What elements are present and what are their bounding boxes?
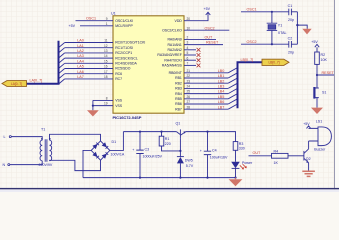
svg-text:+5V: +5V: [69, 24, 76, 28]
bus LA vertical: [27, 41, 59, 84]
U1 right pin name labels: [157, 19, 182, 112]
svg-text:RB1: RB1: [175, 76, 182, 80]
svg-text:Power: Power: [242, 161, 253, 165]
svg-text:XTAL: XTAL: [278, 31, 287, 35]
svg-text:RB0/INT: RB0/INT: [169, 71, 183, 75]
svg-text:LA[0..7]: LA[0..7]: [11, 82, 22, 86]
raw DC rail wire: [123, 130, 176, 134]
svg-text:LB0: LB0: [218, 69, 225, 73]
svg-text:C2: C2: [288, 36, 293, 40]
wire pin9 OSC1: [76, 19, 114, 23]
svg-text:OUT: OUT: [205, 36, 214, 40]
port LA[0..7]: [2, 81, 27, 87]
svg-text:OSC1/CLKI: OSC1/CLKI: [115, 19, 133, 23]
svg-text:R1: R1: [165, 137, 170, 141]
wire RA1 RESET: [184, 43, 223, 47]
svg-text:LB2: LB2: [218, 79, 225, 83]
zener diode D2: [177, 150, 194, 179]
ground at Q2 emitter: [302, 171, 315, 176]
capacitor C1: [288, 4, 298, 22]
svg-text:7: 7: [187, 62, 189, 66]
transistor Q1 (series pass): [176, 122, 186, 151]
svg-text:LB1: LB1: [218, 74, 225, 78]
svg-text:LB3: LB3: [218, 85, 225, 89]
capacitor C4: [200, 131, 228, 179]
buzzer LS1: [309, 120, 332, 152]
switch S1: [313, 87, 326, 99]
svg-text:VDD: VDD: [175, 19, 183, 23]
svg-text:23: 23: [187, 79, 191, 83]
power ground (supply output): [229, 178, 243, 187]
svg-text:R2: R2: [321, 53, 326, 57]
wire RA0 OUT: [184, 38, 216, 42]
svg-text:S1: S1: [322, 90, 326, 94]
svg-text:OSC2: OSC2: [205, 26, 215, 30]
node LB0-LB7 net labels: [218, 69, 225, 109]
svg-text:OSC2/CLKO: OSC2/CLKO: [162, 28, 182, 32]
svg-text:LB[0..7]: LB[0..7]: [241, 58, 254, 62]
svg-text:LB[0..7]: LB[0..7]: [269, 61, 280, 65]
svg-text:24: 24: [187, 85, 191, 89]
wire pin10 OSC2: [184, 28, 229, 32]
svg-text:20: 20: [187, 17, 191, 21]
svg-text:RC1/T1OSI: RC1/T1OSI: [115, 46, 133, 50]
ground at crystal caps: [302, 29, 311, 35]
svg-text:6: 6: [187, 56, 189, 60]
resistor R3: [233, 142, 245, 162]
wire L to transformer primary top: [9, 136, 11, 138]
svg-text:25: 25: [187, 90, 191, 94]
svg-text:26: 26: [187, 95, 191, 99]
wire VSS pins to ground: [93, 100, 113, 110]
wire buzzer to Q2 collector: [307, 141, 311, 149]
svg-text:LA4: LA4: [77, 59, 84, 63]
svg-text:RC0/T1OSO/T1CKI: RC0/T1OSO/T1CKI: [115, 41, 145, 45]
svg-text:R4: R4: [274, 149, 279, 153]
svg-text:RA3/AN3/VREF: RA3/AN3/VREF: [157, 53, 181, 57]
svg-text:LA[0..7]: LA[0..7]: [30, 78, 43, 82]
svg-text:RB7: RB7: [175, 107, 182, 111]
svg-text:+5V: +5V: [303, 122, 310, 126]
wire R4 to Q2 base: [288, 154, 304, 158]
svg-text:RB2: RB2: [175, 81, 182, 85]
svg-text:RB5: RB5: [175, 97, 182, 101]
svg-text:8: 8: [106, 97, 108, 101]
microcontroller U1 PIC16C72: [111, 12, 184, 121]
svg-text:T1: T1: [41, 128, 45, 132]
crystal Y1: [267, 11, 287, 46]
svg-text:VSS: VSS: [115, 104, 123, 108]
svg-text:Q2: Q2: [306, 157, 311, 161]
no-connect X marks RA2-RA5: [184, 48, 200, 67]
LED power indicator: [231, 161, 253, 179]
svg-text:5: 5: [187, 51, 189, 55]
svg-text:RESET: RESET: [206, 41, 219, 45]
svg-text:LA2: LA2: [77, 49, 84, 53]
svg-text:100V/1A: 100V/1A: [111, 152, 125, 156]
svg-text:14: 14: [104, 54, 108, 58]
bus LB vertical: [238, 62, 263, 108]
svg-text:RB6: RB6: [175, 102, 182, 106]
svg-text:20p: 20p: [288, 51, 294, 55]
bridge rectifier D1: [91, 140, 125, 160]
svg-text:RC3/SCK/SCL: RC3/SCK/SCL: [115, 56, 138, 60]
wire transformer secondary bottom to bridge AC2: [50, 160, 101, 170]
resistor R4: [272, 149, 289, 164]
svg-text:16: 16: [104, 65, 108, 69]
svg-text:RC2/CCP1: RC2/CCP1: [115, 51, 132, 55]
svg-text:100uF/16V: 100uF/16V: [210, 155, 228, 159]
regulated +5V rail wire: [186, 132, 236, 142]
svg-text:3: 3: [187, 41, 189, 45]
svg-text:22: 22: [187, 74, 191, 78]
svg-text:LA7: LA7: [77, 75, 84, 79]
svg-text:LA5: LA5: [77, 65, 84, 69]
svg-text:27: 27: [187, 100, 191, 104]
svg-text:N: N: [3, 163, 6, 167]
svg-text:L: L: [4, 135, 6, 139]
ground at switch: [311, 108, 323, 114]
svg-text:LB4: LB4: [218, 90, 225, 94]
power +5V at VDD: [206, 12, 211, 15]
svg-text:RA4/T0CKI: RA4/T0CKI: [164, 58, 181, 62]
wire caps common to ground: [297, 12, 307, 44]
svg-text:C3: C3: [145, 148, 150, 152]
wire transformer secondary top to bridge AC1: [50, 134, 101, 141]
svg-text:+: +: [200, 149, 202, 153]
wire OSC2 to crystal: [241, 42, 289, 46]
wire RB0-RB7 port B bus entries: [184, 68, 238, 110]
svg-text:RESET: RESET: [322, 71, 335, 75]
svg-text:RC5/SDO: RC5/SDO: [115, 67, 131, 71]
svg-text:20p: 20p: [288, 18, 294, 22]
svg-text:11: 11: [104, 39, 108, 43]
svg-text:LB5: LB5: [218, 95, 225, 99]
svg-text:330: 330: [239, 147, 245, 151]
ground at VSS: [87, 110, 99, 116]
svg-text:9: 9: [106, 17, 108, 21]
svg-text:OUT: OUT: [253, 151, 262, 155]
wire pin1 MCLR to +5V: [80, 24, 113, 28]
svg-text:RA2/AN2: RA2/AN2: [167, 48, 181, 52]
svg-text:R3: R3: [239, 142, 244, 146]
wire bridge plus to filter rail: [110, 132, 124, 151]
wire N to transformer primary bottom: [8, 164, 10, 166]
svg-text:RA0/AN0: RA0/AN0: [167, 38, 181, 42]
svg-text:C4: C4: [212, 149, 217, 153]
transformer T1: [39, 128, 53, 167]
svg-text:1: 1: [106, 22, 108, 26]
svg-text:5.7V: 5.7V: [186, 164, 194, 168]
svg-text:LB6: LB6: [218, 100, 225, 104]
wire bridge minus to ground rail: [83, 150, 91, 177]
svg-text:12: 12: [104, 44, 108, 48]
svg-text:17: 17: [104, 70, 108, 74]
ground rail wire: [83, 176, 236, 180]
node LA0-LA7 net labels: [77, 39, 84, 79]
svg-text:PIC16C72-04SP: PIC16C72-04SP: [113, 115, 142, 120]
wire RC0-RC7 port A bus entries: [59, 43, 114, 85]
wire OSC1 to crystal: [241, 10, 289, 14]
svg-text:15: 15: [104, 59, 108, 63]
svg-text:DW5: DW5: [185, 158, 193, 162]
svg-text:1000uF/25V: 1000uF/25V: [143, 154, 163, 158]
svg-text:VSS: VSS: [115, 99, 123, 103]
svg-text:RC7: RC7: [115, 77, 122, 81]
wire switch to ground: [315, 98, 319, 108]
svg-text:+5V: +5V: [311, 40, 318, 44]
capacitor C2: [288, 36, 298, 54]
svg-text:220: 220: [165, 142, 171, 146]
svg-text:LA0: LA0: [77, 39, 84, 43]
resistor R1: [159, 131, 180, 151]
svg-text:10K: 10K: [321, 58, 328, 62]
svg-text:19: 19: [104, 102, 108, 106]
svg-text:RC4/SDI/SDA: RC4/SDI/SDA: [115, 62, 137, 66]
svg-text:OSC2: OSC2: [247, 40, 257, 44]
svg-text:2: 2: [187, 36, 189, 40]
svg-text:+: +: [132, 148, 134, 152]
svg-text:21: 21: [187, 69, 191, 73]
svg-text:28: 28: [187, 105, 191, 109]
resistor R2: [315, 52, 328, 64]
svg-text:4: 4: [187, 46, 189, 50]
svg-text:RB4: RB4: [175, 92, 182, 96]
port LB[0..7]: [262, 59, 289, 65]
svg-text:Q1: Q1: [176, 122, 181, 126]
svg-text:RC6: RC6: [115, 72, 122, 76]
svg-text:OSC1: OSC1: [247, 8, 257, 12]
capacitor C3: [132, 131, 162, 179]
svg-text:18: 18: [104, 75, 108, 79]
svg-text:U1: U1: [111, 12, 116, 16]
svg-text:+5V: +5V: [204, 7, 211, 11]
svg-text:RB3: RB3: [175, 87, 182, 91]
svg-text:Buzzer: Buzzer: [314, 147, 326, 151]
svg-text:LA1: LA1: [77, 44, 84, 48]
svg-text:LS1: LS1: [316, 120, 322, 124]
svg-text:Y1: Y1: [278, 24, 282, 28]
svg-text:MCLR/VPP: MCLR/VPP: [115, 24, 133, 28]
svg-text:RA1/AN1: RA1/AN1: [167, 43, 181, 47]
wire R2 to switch, RESET node: [317, 64, 339, 87]
svg-text:LA6: LA6: [77, 70, 84, 74]
U1 pin numbers: [104, 17, 190, 110]
svg-text:LB7: LB7: [218, 105, 225, 109]
svg-text:13: 13: [104, 49, 108, 53]
svg-text:OSC1: OSC1: [86, 17, 96, 21]
svg-text:1K: 1K: [274, 161, 279, 165]
svg-text:C1: C1: [288, 4, 293, 8]
U1 left pin name labels: [115, 19, 145, 108]
transistor Q2: [304, 149, 311, 171]
svg-text:LA3: LA3: [77, 54, 84, 58]
svg-text:RA5/AN4/SS: RA5/AN4/SS: [162, 64, 183, 68]
svg-text:10: 10: [187, 26, 191, 30]
svg-text:D1: D1: [112, 140, 117, 144]
wire VDD to +5V: [184, 13, 208, 21]
